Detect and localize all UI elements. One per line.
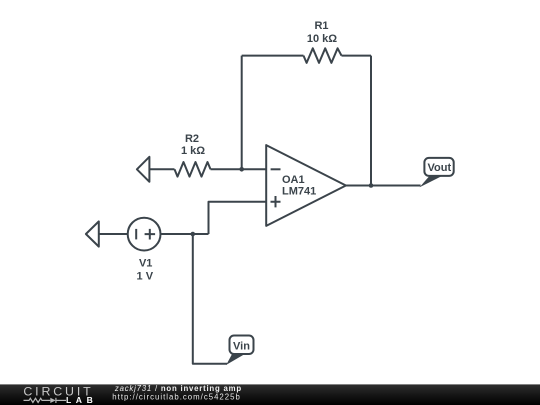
wire	[149, 168, 174, 170]
wire	[342, 55, 372, 57]
op-amp OA1	[266, 145, 346, 226]
wire	[161, 233, 209, 235]
wire	[99, 233, 128, 235]
pin - of V1	[135, 229, 137, 240]
CircuitLab logo wordmark	[23, 385, 91, 399]
node junction at output	[369, 183, 374, 188]
wire	[346, 185, 421, 187]
svg-text:1 kΩ: 1 kΩ	[181, 145, 205, 157]
svg-text:10 kΩ: 10 kΩ	[307, 33, 337, 45]
wire	[242, 55, 304, 57]
footer bar	[0, 384, 540, 405]
svg-text:http://circuitlab.com/c54225b: http://circuitlab.com/c54225b	[112, 393, 240, 402]
pin - of OA1	[271, 168, 281, 170]
svg-text:Vin: Vin	[233, 340, 250, 352]
svg-text:R2: R2	[185, 133, 199, 145]
node junction at V1 output	[191, 232, 196, 237]
svg-text:LAB: LAB	[66, 395, 93, 405]
svg-text:zackj731 / non inverting amp: zackj731 / non inverting amp	[114, 384, 241, 393]
svg-text:R1: R1	[314, 20, 328, 32]
voltage source V1	[128, 218, 161, 251]
svg-text:V1: V1	[139, 258, 152, 270]
resistor R2	[175, 162, 211, 177]
CircuitLab logo resistor-diode glyph	[24, 398, 67, 403]
wire	[209, 202, 267, 234]
svg-text:Vout: Vout	[427, 162, 451, 174]
wire	[211, 168, 267, 170]
pin + of OA1	[271, 196, 281, 207]
node flag Vin	[226, 336, 253, 365]
svg-text:LM741: LM741	[282, 185, 316, 197]
node junction at R1 left / op-amp inverting input	[239, 167, 244, 172]
svg-text:1 V: 1 V	[137, 271, 154, 283]
wire	[193, 234, 227, 364]
wire	[241, 56, 243, 170]
ground	[86, 221, 99, 246]
pin + of V1	[145, 229, 156, 240]
node flag Vout	[420, 158, 454, 187]
svg-text:OA1: OA1	[282, 174, 305, 186]
wire	[370, 56, 372, 186]
resistor R1	[304, 48, 342, 63]
ground	[137, 157, 150, 182]
